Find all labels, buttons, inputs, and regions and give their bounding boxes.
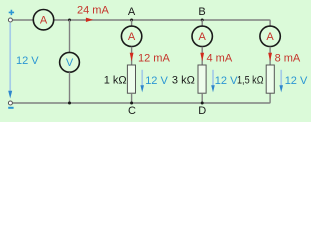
node: voltmeter bottom junction — [68, 102, 71, 105]
node D — [201, 102, 204, 105]
svg-text:12 V: 12 V — [215, 75, 238, 87]
node B — [201, 19, 204, 22]
current arrow on top rail (24 mA, rightward) — [86, 18, 93, 22]
ammeter A (branch 3, 8 mA) — [260, 26, 280, 46]
voltage arrow (branch 2, 12 V downward) — [212, 70, 214, 87]
ammeter A (branch 2, 4 mA) — [192, 26, 212, 46]
svg-text:1,5 kΩ: 1,5 kΩ — [237, 75, 264, 87]
wire: branch 1 bottom stub — [131, 93, 133, 103]
svg-text:V: V — [66, 57, 74, 69]
ammeter A (branch 1, 12 mA) — [121, 26, 141, 46]
label: - sign — [8, 107, 13, 109]
svg-text:A: A — [128, 6, 136, 18]
current arrow 12 mA (downward) — [130, 53, 134, 62]
svg-text:A: A — [128, 31, 136, 43]
svg-text:C: C — [128, 105, 136, 117]
voltmeter V — [60, 52, 80, 72]
svg-text:24 mA: 24 mA — [77, 5, 109, 17]
svg-text:D: D — [198, 105, 206, 117]
resistor R2 3 kOhm — [198, 65, 206, 93]
svg-text:12 mA: 12 mA — [138, 53, 170, 65]
svg-text:4 mA: 4 mA — [207, 53, 233, 65]
wire: branch 1 top stub — [131, 20, 133, 26]
svg-text:1 kΩ: 1 kΩ — [104, 75, 127, 87]
current arrow 4 mA (downward) — [200, 53, 204, 62]
wire: branch 2 top stub — [201, 20, 203, 26]
wire: voltmeter branch lower — [69, 72, 71, 103]
voltage arrow (branch 3, 12 V downward) — [280, 70, 282, 87]
ammeter A (main, 24 mA) — [33, 10, 53, 30]
svg-text:A: A — [40, 15, 48, 27]
svg-text:12 V: 12 V — [16, 55, 39, 67]
resistor R1 1 kOhm — [127, 65, 135, 93]
svg-text:3 kΩ: 3 kΩ — [172, 75, 195, 87]
source voltage arrow (blue, downward) — [9, 23, 11, 93]
terminal: + input — [8, 18, 12, 22]
wire: branch 1 middle stub — [131, 47, 133, 65]
wire: top rail from + terminal to branch 3 corner — [13, 20, 271, 26]
wire: voltmeter branch upper — [69, 20, 71, 52]
svg-text:12 V: 12 V — [145, 75, 168, 87]
node A — [130, 19, 133, 22]
svg-text:B: B — [198, 6, 205, 18]
terminal: - input — [8, 101, 12, 105]
svg-text:A: A — [199, 31, 207, 43]
node: voltmeter top junction — [68, 19, 71, 22]
wire: branch 2 bottom stub — [201, 93, 203, 103]
svg-text:A: A — [266, 31, 274, 43]
wire: bottom rail from - terminal to branch 3 corner — [13, 93, 271, 103]
label: + sign — [9, 10, 14, 15]
node C — [130, 102, 133, 105]
resistor R3 1,5 kOhm — [266, 65, 274, 93]
svg-text:12 V: 12 V — [285, 75, 308, 87]
svg-text:8 mA: 8 mA — [275, 53, 301, 65]
wire: branch 3 middle stub — [269, 47, 271, 65]
voltage arrow (branch 1, 12 V downward) — [141, 70, 143, 87]
wire: branch 2 middle stub — [201, 47, 203, 65]
current arrow 8 mA (downward) — [268, 53, 272, 62]
